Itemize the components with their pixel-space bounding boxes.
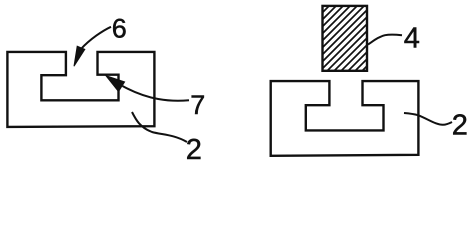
arrow 6 head [74, 46, 85, 66]
svg-text:6: 6 [112, 14, 127, 44]
svg-text:4: 4 [404, 23, 420, 55]
arrow 7 head [106, 76, 125, 92]
leader for label 4 [368, 35, 402, 45]
arrow 6 shaft [81, 27, 112, 50]
arrow 7 shaft [123, 86, 190, 101]
patent-style figure: block with T-slot (left) and block with T-slot plus hatched plug (right) [0, 0, 474, 166]
svg-text:2: 2 [186, 134, 202, 166]
svg-text:2: 2 [452, 110, 468, 142]
leader for left label 2 [132, 112, 187, 142]
svg-text:7: 7 [190, 90, 205, 120]
right block profile with T-slot (part 2) [271, 81, 419, 156]
left block profile with T-slot (part 2) [7, 52, 154, 127]
hatched plug 4 [316, 0, 445, 75]
leader for right label 2 [404, 113, 452, 125]
